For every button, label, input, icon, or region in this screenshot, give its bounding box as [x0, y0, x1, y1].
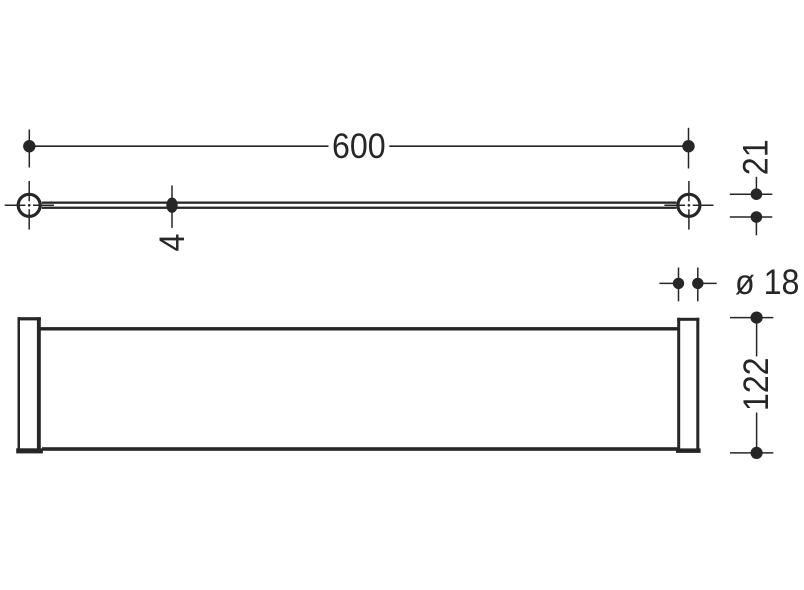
right post (front view)	[676, 318, 701, 453]
dim 4 line	[171, 185, 173, 228]
dim diameter-18 left dot	[673, 268, 684, 302]
dim 600 left dot	[23, 130, 35, 168]
right centerline cross	[664, 181, 713, 230]
left mounting circle (top view)	[18, 194, 40, 216]
shelf bottom edge (front view)	[42, 447, 677, 451]
right mounting circle (top view)	[678, 194, 700, 216]
dim 21 line	[755, 177, 757, 236]
shelf top edge (front view)	[39, 327, 680, 330]
left centerline cross	[5, 181, 54, 230]
svg-text:21: 21	[737, 139, 776, 175]
dim 21 upper dot	[751, 188, 763, 200]
svg-text:4: 4	[154, 234, 193, 252]
dimension line 600	[29, 145, 688, 147]
dim 122 upper tick	[730, 317, 773, 319]
dim diameter-18 right dot	[692, 268, 703, 302]
dim 122 lower dot	[751, 447, 763, 459]
shelf bar (top view)	[42, 202, 677, 209]
svg-text:122: 122	[738, 357, 777, 411]
dim 122 lower tick	[730, 452, 773, 454]
dim diameter-18 ticks	[659, 282, 716, 284]
dim 122 line	[756, 318, 758, 453]
dim 4 dot	[166, 198, 177, 213]
dim 21 lower dot	[751, 211, 763, 223]
svg-text:ø 18: ø 18	[735, 264, 799, 303]
dim 122 upper dot	[751, 312, 763, 324]
dim 21 lower tick	[730, 216, 773, 218]
dim 21 upper tick	[730, 193, 773, 195]
left post (front view)	[16, 317, 43, 453]
svg-text:600: 600	[332, 128, 386, 167]
dim 600 right dot	[682, 128, 694, 169]
